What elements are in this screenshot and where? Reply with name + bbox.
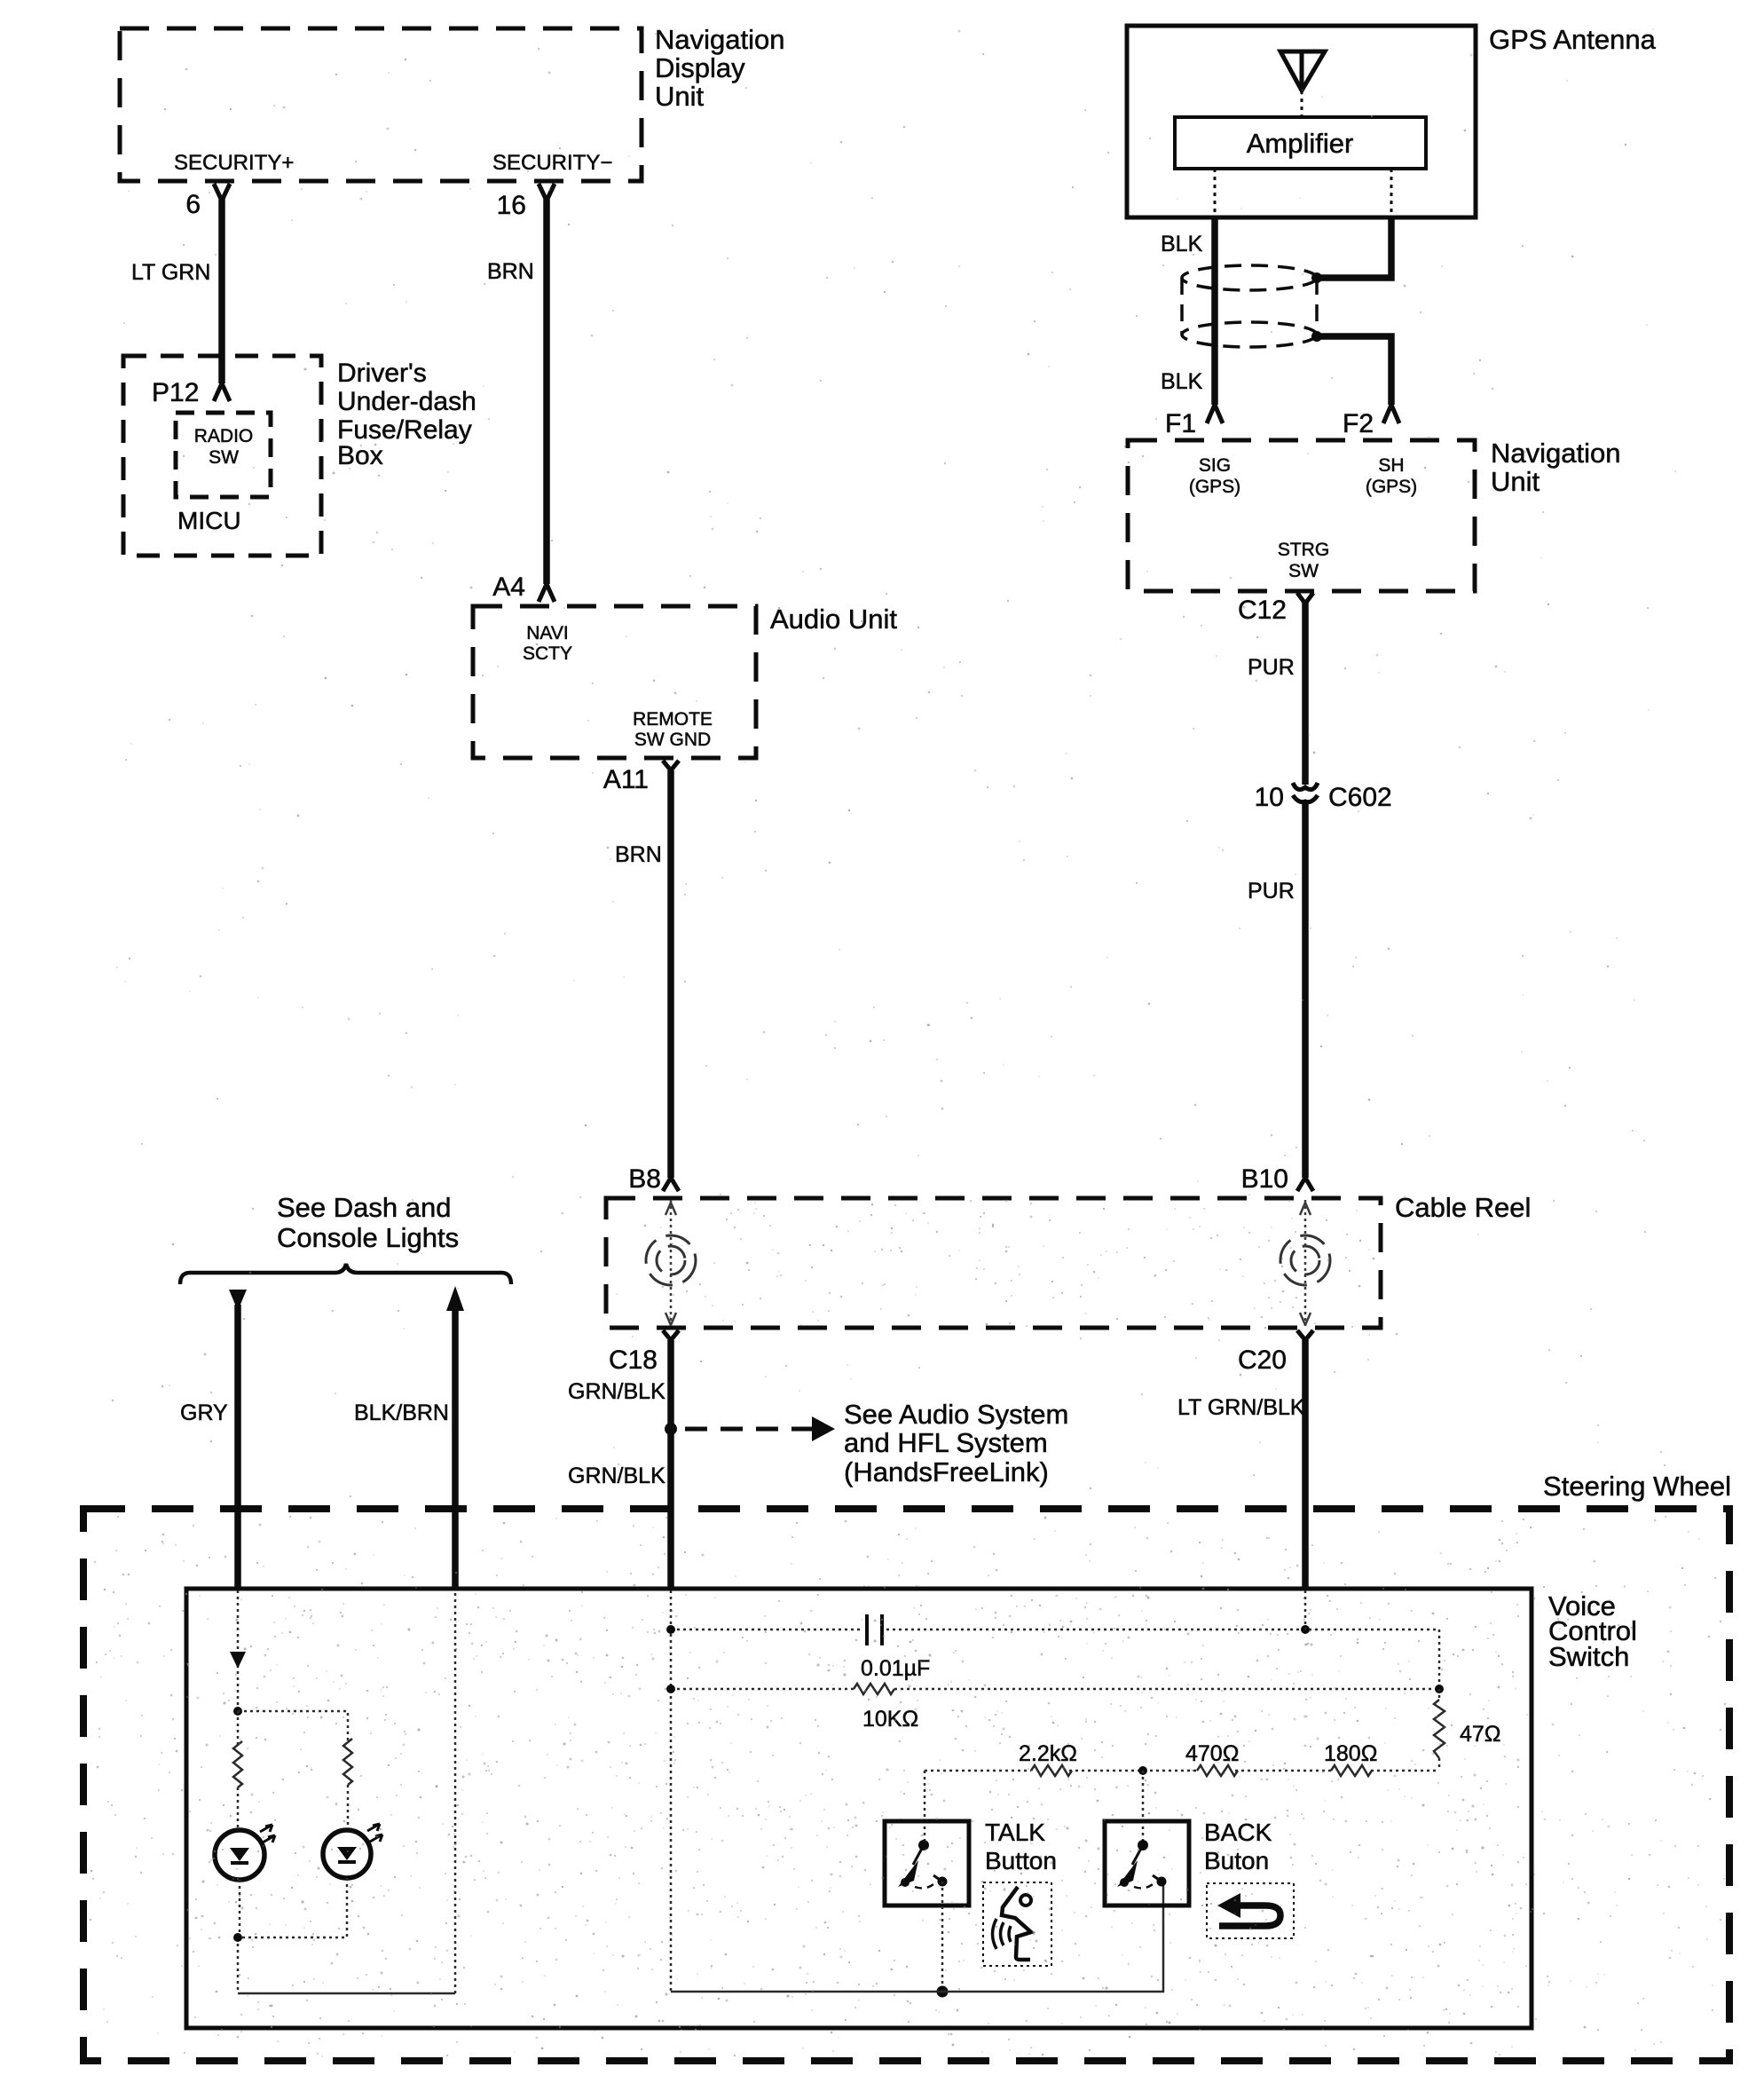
LT GRN/BLK internal dotted [1304,1590,1307,1629]
svg-text:LT GRN: LT GRN [131,260,210,285]
cable reel left internal wire [670,1200,673,1326]
LED downstream wires [238,1878,347,1993]
svg-text:BLK/BRN: BLK/BRN [354,1401,449,1425]
cable reel right coil [1280,1235,1330,1285]
svg-text:Navigation: Navigation [655,24,784,55]
gps antenna box [1127,26,1476,217]
svg-text:C602: C602 [1328,783,1392,812]
svg-text:C18: C18 [609,1345,658,1375]
radio sw box [176,413,271,497]
svg-text:Navigation: Navigation [1491,438,1620,469]
svg-text:C20: C20 [1238,1345,1287,1375]
wire LT GRN (pin6 to P12) [218,197,225,383]
junction cap line at LT GRN/BLK wire [1301,1625,1310,1634]
connector fork at C18 [663,1330,679,1340]
TALK button box [885,1821,969,1906]
svg-text:LT GRN/BLK: LT GRN/BLK [1177,1395,1305,1420]
svg-text:P12: P12 [152,378,199,407]
svg-text:(GPS): (GPS) [1189,477,1240,497]
svg-text:SIG: SIG [1199,455,1231,476]
amplifier box U1 [1175,117,1426,169]
svg-text:See Dash and: See Dash and [277,1192,451,1223]
pin label NAVI SCTY [523,623,572,664]
wire junction to BACK switch [1142,1771,1145,1841]
svg-text:(GPS): (GPS) [1366,477,1417,497]
label Driver's Under-dash Fuse/Relay Box [337,359,476,470]
connector fork at F1 [1207,405,1223,423]
antenna symbol [1280,51,1325,91]
connector fork at C20 [1297,1330,1313,1340]
wire row to TALK [924,1771,926,1841]
audio unit box [473,606,756,758]
voice control switch box [186,1589,1532,2028]
svg-text:0.01µF: 0.01µF [861,1656,930,1681]
svg-text:BRN: BRN [615,842,662,867]
svg-text:PUR: PUR [1248,879,1295,903]
wire shield to F2 [1317,336,1391,405]
svg-text:See Audio System: See Audio System [844,1399,1068,1430]
svg-text:A11: A11 [603,765,649,794]
svg-text:SECURITY−: SECURITY− [492,151,612,175]
brace [180,1264,511,1284]
10K line [671,1688,1439,1691]
dashed arrow to See Audio System [685,1427,813,1432]
resistor 2.2k [1031,1765,1072,1776]
connector fork at pin 6 [214,184,230,201]
svg-text:GRN/BLK: GRN/BLK [568,1464,665,1488]
capacitor line [671,1629,1439,1688]
svg-text:470Ω: 470Ω [1185,1741,1239,1766]
resistor left LED [237,1711,240,1830]
BACK button box [1105,1821,1189,1906]
svg-text:and HFL System: and HFL System [844,1427,1048,1458]
svg-text:6: 6 [185,190,201,219]
resistor 470 [1197,1765,1238,1776]
TALK switch SW1 [898,1840,948,1888]
connector fork at F2 [1383,405,1399,423]
label Voice Control Switch [1548,1590,1637,1672]
connector fork at B8 [663,1178,679,1191]
wire TALK to bottom [941,1882,944,1992]
svg-text:SW: SW [209,447,239,468]
wire GRN/BLK (C18 down) [667,1340,674,1590]
inline connector C602 [1293,783,1318,802]
junction resistor row to BACK [1138,1766,1147,1775]
svg-text:2.2kΩ: 2.2kΩ [1019,1741,1077,1766]
BACK switch SW2 [1117,1840,1167,1888]
label See Audio System and HFL System (HandsFreeLink) [844,1399,1068,1487]
svg-text:Unit: Unit [655,81,705,112]
navigation display unit box [120,28,642,181]
svg-text:TALK: TALK [985,1819,1045,1846]
svg-text:B8: B8 [628,1164,661,1194]
scan speckle noise 2 [90,1517,1707,2057]
svg-text:B10: B10 [1241,1164,1288,1194]
svg-text:180Ω: 180Ω [1324,1741,1377,1766]
svg-text:SW GND: SW GND [634,730,711,750]
GRY internal dotted wire [237,1590,240,1711]
wire PUR (C12 to C602) [1302,602,1309,785]
junction 10K left [666,1685,675,1693]
svg-text:NAVI: NAVI [526,623,568,643]
svg-text:Cable Reel: Cable Reel [1395,1192,1531,1223]
junction cap line left [666,1625,675,1634]
resistor row line [925,1770,1439,1772]
pin label REMOTE SW GND [633,709,713,750]
LED 2 [323,1824,382,1878]
connector fork at B10 [1297,1178,1313,1191]
svg-text:10KΩ: 10KΩ [862,1707,918,1732]
svg-text:GRN/BLK: GRN/BLK [568,1379,665,1404]
svg-text:C12: C12 [1238,596,1287,625]
label Navigation Display Unit [655,24,784,112]
driver's under-dash fuse/relay box [123,356,321,556]
resistor 10K [854,1684,894,1694]
bottom line buttons [671,1882,1163,1992]
GRN/BLK internal dotted wire [670,1590,673,1992]
wire amp to F1 (dotted inside box) [1214,169,1217,217]
LED 1 [215,1825,275,1880]
wire BLK/BRN with up arrow [446,1286,464,1311]
junction on GRN/BLK [665,1423,677,1435]
svg-text:Unit: Unit [1491,466,1540,497]
connector fork at pin 16 [539,184,555,201]
svg-text:GPS Antenna: GPS Antenna [1489,24,1657,55]
wire from amp right to shield [1317,217,1391,278]
svg-text:BLK: BLK [1161,232,1203,256]
svg-text:SW: SW [1288,561,1319,581]
coax shield cylinder [1182,265,1317,347]
svg-text:STRG: STRG [1278,540,1329,560]
arrow down on GRY internal [230,1652,246,1669]
cable reel box [606,1198,1381,1328]
connector fork at A11 [663,761,679,770]
label BACK Buton [1204,1819,1272,1874]
svg-text:(HandsFreeLink): (HandsFreeLink) [844,1456,1049,1487]
svg-text:F2: F2 [1343,409,1374,438]
svg-text:MICU: MICU [177,507,241,534]
resistor 180 [1331,1765,1372,1776]
svg-text:Switch: Switch [1548,1641,1629,1672]
BACK icon box [1207,1883,1294,1938]
svg-text:Buton: Buton [1204,1847,1269,1874]
wire BLK left (to F1) [1211,217,1218,405]
BACK u-turn arrow icon [1217,1893,1280,1926]
svg-text:BRN: BRN [487,259,534,284]
pin label SH (GPS) [1366,455,1417,497]
label TALK Button [985,1819,1057,1874]
wire BRN (pin16 to A4) [543,197,550,584]
label Navigation Unit [1491,438,1620,497]
cable reel left coil [646,1235,696,1285]
svg-text:A4: A4 [492,572,525,602]
LED bottom return line [238,1992,455,1995]
svg-text:Amplifier: Amplifier [1247,128,1354,159]
svg-text:Audio Unit: Audio Unit [770,604,897,635]
label RADIO SW [194,426,254,468]
connector fork at A4 [539,584,555,602]
svg-text:SCTY: SCTY [523,643,572,664]
capacitor C 0.01uF [867,1614,882,1645]
svg-text:Under-dash: Under-dash [337,387,476,416]
junction shield top [1311,272,1322,283]
svg-text:16: 16 [497,191,526,220]
wire LT GRN/BLK (C20 down) [1302,1340,1309,1590]
svg-text:Driver's: Driver's [337,359,427,388]
junction top of LED branches [233,1707,242,1716]
junction 10K right [1435,1685,1444,1693]
pin label SIG (GPS) [1189,455,1240,497]
svg-text:47Ω: 47Ω [1460,1722,1501,1747]
svg-text:SH: SH [1378,455,1404,476]
TALK icon box [983,1882,1051,1966]
junction shield bottom [1311,331,1322,342]
svg-text:GRY: GRY [180,1401,228,1425]
navigation unit box [1128,440,1475,591]
resistor 47 ohm vertical [1438,1689,1441,1771]
connector fork at C12 [1297,593,1313,604]
label See Dash and Console Lights [277,1192,459,1253]
cable reel right internal wire [1304,1200,1307,1326]
svg-text:REMOTE: REMOTE [633,709,713,730]
svg-text:BACK: BACK [1204,1819,1272,1846]
branch wire to right LED [238,1711,348,1742]
wire PUR (C602 to B10) [1302,801,1309,1178]
svg-text:RADIO: RADIO [194,426,254,446]
steering wheel box [83,1509,1729,2061]
svg-text:F1: F1 [1165,409,1196,438]
svg-text:10: 10 [1255,783,1284,812]
svg-text:BLK: BLK [1161,369,1203,394]
wire BRN (A11 to B8) [667,770,674,1178]
TALK face icon [993,1887,1032,1960]
svg-text:Display: Display [655,52,745,83]
connector fork at P12 [214,383,230,401]
svg-text:PUR: PUR [1248,655,1295,680]
BLK/BRN internal dotted wire [454,1590,457,1993]
svg-text:Console Lights: Console Lights [277,1222,459,1253]
junction bottom line at TALK [937,1986,949,1998]
wire amp to F2 (dotted inside box) [1390,169,1393,217]
svg-text:Button: Button [985,1847,1057,1874]
svg-text:SECURITY+: SECURITY+ [174,151,294,175]
resistor right LED [347,1785,350,1830]
pin label STRG SW [1278,540,1329,581]
junction bottom of LED branches [233,1933,242,1942]
svg-text:Steering Wheel: Steering Wheel [1543,1471,1731,1502]
wire GRY with down arrow [229,1290,247,1311]
